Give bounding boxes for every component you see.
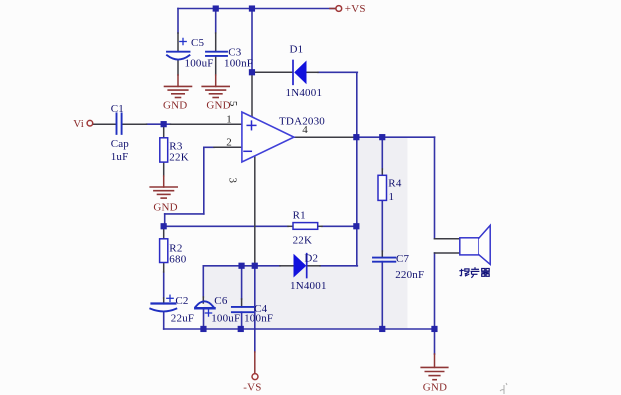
svg-text:4: 4 — [302, 124, 308, 136]
svg-text:GND: GND — [153, 201, 177, 213]
svg-text:100uF: 100uF — [185, 58, 214, 70]
svg-text:R4: R4 — [388, 178, 402, 190]
svg-text:1N4001: 1N4001 — [286, 87, 323, 99]
svg-text:-VS: -VS — [243, 382, 261, 394]
svg-text:22K: 22K — [169, 152, 189, 164]
svg-text:GND: GND — [423, 382, 447, 394]
svg-text:100nF: 100nF — [244, 313, 273, 325]
svg-text:1N4001: 1N4001 — [290, 280, 327, 292]
svg-text:1: 1 — [226, 113, 232, 125]
svg-text:220nF: 220nF — [395, 269, 424, 281]
svg-text:1: 1 — [389, 191, 395, 203]
svg-text:1uF: 1uF — [111, 151, 129, 163]
svg-text:C2: C2 — [175, 295, 188, 307]
svg-text:C7: C7 — [396, 253, 410, 265]
svg-text:2: 2 — [226, 136, 232, 148]
svg-text:+VS: +VS — [345, 3, 366, 15]
svg-text:D1: D1 — [290, 43, 304, 55]
svg-text:C5: C5 — [191, 37, 205, 49]
svg-text:D2: D2 — [304, 253, 318, 265]
svg-text:22K: 22K — [293, 235, 313, 247]
svg-text:680: 680 — [169, 253, 186, 265]
svg-text:100uF: 100uF — [211, 313, 240, 325]
svg-text:100nF: 100nF — [224, 58, 253, 70]
svg-text:C1: C1 — [111, 103, 124, 115]
svg-text:22uF: 22uF — [171, 313, 194, 325]
svg-text:5: 5 — [227, 101, 239, 107]
svg-text:R1: R1 — [293, 210, 306, 222]
svg-text:3: 3 — [227, 178, 239, 184]
svg-text:Vi: Vi — [73, 118, 84, 130]
svg-text:C6: C6 — [214, 295, 228, 307]
svg-text:R3: R3 — [169, 140, 183, 152]
svg-text:Cap: Cap — [111, 138, 130, 150]
svg-text:GND: GND — [163, 99, 187, 111]
